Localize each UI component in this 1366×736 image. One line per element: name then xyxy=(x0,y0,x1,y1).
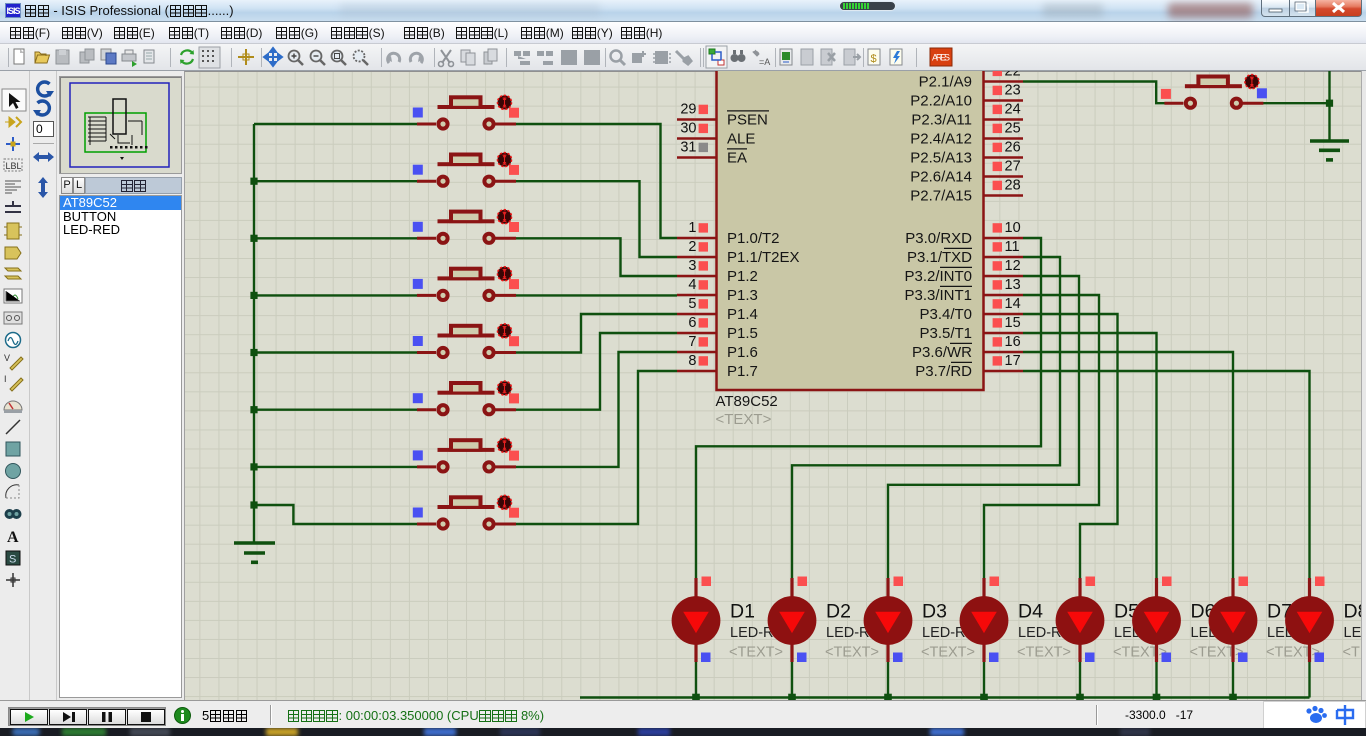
pin 13 stub xyxy=(984,277,1024,295)
wire pin17 to LED D8 xyxy=(1023,371,1310,578)
pin label P1.2 xyxy=(727,268,758,285)
toolbar xyxy=(0,44,1366,71)
svg-text:2: 2 xyxy=(688,239,696,255)
pin label P3.6/WR xyxy=(912,343,972,361)
pin label P1.5 xyxy=(727,325,758,342)
pin label P3.7/RD xyxy=(915,362,972,380)
svg-text:30: 30 xyxy=(680,121,696,137)
pin 30 stub (ALE) xyxy=(677,121,717,139)
wire pin12 to LED D3 xyxy=(888,276,1079,578)
wire button7 to pin7 xyxy=(516,352,677,467)
wire button3 to pin3 xyxy=(516,238,677,276)
junction bottom bus x=792 xyxy=(788,694,796,702)
svg-text:I: I xyxy=(4,374,7,384)
left tool strip xyxy=(0,71,30,700)
pin label P1.7 xyxy=(727,363,758,380)
svg-text:S: S xyxy=(9,554,16,566)
LED D2 xyxy=(768,577,890,663)
ground left xyxy=(234,543,275,562)
junction bottom bus x=696 xyxy=(692,694,700,702)
junction on ground bus y=295.4 xyxy=(250,292,257,299)
wire button row2 to bus xyxy=(254,180,417,182)
svg-text:ARES: ARES xyxy=(932,53,950,63)
op-amp U1 : microcontroller AT89C52 body xyxy=(717,50,984,390)
wire LED D2 cathode to bus xyxy=(791,662,793,698)
junction bottom bus x=1233 xyxy=(1229,694,1237,702)
svg-text:25: 25 xyxy=(1005,121,1021,137)
wire button8 to pin8 xyxy=(516,371,677,524)
pin 23 stub xyxy=(984,83,1024,101)
svg-text:=A: =A xyxy=(759,57,770,67)
svg-text:10: 10 xyxy=(1005,220,1021,236)
junction on ground bus y=238.3 xyxy=(250,235,257,242)
junction bottom bus x=888 xyxy=(884,694,892,702)
pin label P3.5/T1 xyxy=(919,325,972,342)
LED D4 xyxy=(960,577,1082,663)
pin 22 stub xyxy=(984,64,1024,82)
wire top net to ground xyxy=(1328,71,1330,140)
pin 4 stub (P1.3) xyxy=(677,277,717,295)
svg-text:<TEXT>: <TEXT> xyxy=(1266,645,1320,661)
status bar xyxy=(0,700,1366,728)
wire button row8 to bus xyxy=(254,505,417,524)
pin label PSEN xyxy=(727,111,769,129)
pin label P1.1/T2EX xyxy=(727,249,800,266)
pin 14 stub xyxy=(984,296,1024,314)
svg-text:D8: D8 xyxy=(1344,601,1363,623)
svg-text:P1.4: P1.4 xyxy=(727,306,758,323)
svg-text:<TEXT>: <TEXT> xyxy=(825,645,879,661)
svg-text:29: 29 xyxy=(680,102,696,118)
button S4 xyxy=(413,267,519,300)
pin 6 stub (P1.5) xyxy=(677,315,717,333)
svg-text:31: 31 xyxy=(680,140,696,156)
wire button4 to pin4 xyxy=(516,294,677,296)
svg-text:6: 6 xyxy=(688,315,696,331)
pin label P2.6/A14 xyxy=(910,169,972,186)
wire button1 to pin1 xyxy=(516,124,677,238)
svg-text:3: 3 xyxy=(688,258,696,274)
pin 1 stub (P1.0/T2) xyxy=(677,220,717,238)
panel column xyxy=(57,71,184,700)
svg-text:EA: EA xyxy=(727,150,747,167)
svg-text:17: 17 xyxy=(1005,353,1021,369)
svg-text:P3.7/RD: P3.7/RD xyxy=(915,363,972,380)
menu bar xyxy=(0,22,1366,44)
pin label P1.4 xyxy=(727,306,758,323)
junction on ground bus y=181.2 xyxy=(250,178,257,185)
svg-text:P1.0/T2: P1.0/T2 xyxy=(727,230,780,247)
svg-text:7: 7 xyxy=(688,334,696,350)
pin label P2.5/A13 xyxy=(910,150,972,167)
pin label P3.4/T0 xyxy=(919,306,972,323)
wire LED D8 cathode to bus xyxy=(1308,662,1310,698)
svg-text:26: 26 xyxy=(1005,140,1021,156)
pin label P2.7/A15 xyxy=(910,188,972,205)
svg-text:P1.3: P1.3 xyxy=(727,287,758,304)
wire pin11 to LED D2 xyxy=(792,257,1060,578)
svg-text:P2.5/A13: P2.5/A13 xyxy=(910,150,972,167)
pin label ALE xyxy=(727,131,755,148)
svg-text:P3.0/RXD: P3.0/RXD xyxy=(905,230,972,247)
taskbar xyxy=(0,728,1366,736)
svg-text:<TEXT>: <TEXT> xyxy=(1017,645,1071,661)
svg-text:D4: D4 xyxy=(1018,601,1043,623)
wire button row5 to bus xyxy=(254,351,417,353)
button S2 xyxy=(413,153,519,186)
pin label P2.1/A9 xyxy=(919,74,972,91)
svg-text:V: V xyxy=(4,353,10,363)
pin 27 stub xyxy=(984,159,1024,177)
wire LED D6 cathode to bus xyxy=(1155,662,1157,698)
svg-text:24: 24 xyxy=(1005,102,1021,118)
svg-text:P2.7/A15: P2.7/A15 xyxy=(910,188,972,205)
wire pin16 to LED D7 xyxy=(1023,352,1233,578)
pin 10 stub xyxy=(984,220,1024,238)
chip value &lt;TEXT&gt; xyxy=(716,411,772,428)
pin 12 stub xyxy=(984,258,1024,276)
svg-text:LBL: LBL xyxy=(6,161,22,171)
wire button9 to ground node xyxy=(1262,102,1330,104)
wire pin15 to LED D6 xyxy=(1023,333,1157,578)
svg-text:P1.5: P1.5 xyxy=(727,325,758,342)
pin label P2.2/A10 xyxy=(910,93,972,110)
wire LED D3 cathode to bus xyxy=(887,662,889,698)
button S6 xyxy=(413,381,519,414)
svg-text:P3.1/TXD: P3.1/TXD xyxy=(907,249,972,266)
svg-text:<TEXT>: <TEXT> xyxy=(729,645,783,661)
wire pin22 to button9 xyxy=(1023,82,1165,104)
svg-text:<TEXT>: <TEXT> xyxy=(1190,645,1244,661)
LED D6 xyxy=(1132,577,1254,663)
svg-text:PSEN: PSEN xyxy=(727,112,768,129)
wire button6 to pin6 xyxy=(516,333,677,410)
svg-text:8: 8 xyxy=(688,353,696,369)
svg-text:27: 27 xyxy=(1005,159,1021,175)
pin 11 stub xyxy=(984,239,1024,257)
junction on ground bus y=505 xyxy=(250,501,257,508)
pin label P1.3 xyxy=(727,287,758,304)
svg-text:16: 16 xyxy=(1005,334,1021,350)
pin 25 stub xyxy=(984,121,1024,139)
LED D3 xyxy=(864,577,986,663)
svg-text:LED-RED: LED-RED xyxy=(1344,625,1363,641)
svg-text:5: 5 xyxy=(688,296,696,312)
pin 2 stub (P1.1/T2EX) xyxy=(677,239,717,257)
button S1 xyxy=(413,95,519,128)
pin 15 stub xyxy=(984,315,1024,333)
pin label P3.3/INT1 xyxy=(904,286,972,304)
svg-text:P3.6/WR: P3.6/WR xyxy=(912,344,972,361)
pin 24 stub xyxy=(984,102,1024,120)
wire button row3 to bus xyxy=(254,237,417,239)
pin label P3.0/RXD xyxy=(905,230,972,247)
pin label P1.0/T2 xyxy=(727,230,780,247)
pin 28 stub xyxy=(984,178,1024,196)
svg-text:<TEXT>: <TEXT> xyxy=(1343,645,1363,661)
svg-text:$: $ xyxy=(871,53,877,65)
LED D1 xyxy=(672,577,794,663)
svg-text:P2.4/A12: P2.4/A12 xyxy=(910,131,972,148)
svg-text:P2.1/A9: P2.1/A9 xyxy=(919,74,972,91)
pin label P1.6 xyxy=(727,344,758,361)
svg-text:P2.3/A11: P2.3/A11 xyxy=(911,112,972,129)
pin label P3.2/INT0 xyxy=(904,267,972,285)
wire pin13 to LED D4 xyxy=(984,295,1099,578)
svg-text:P1.7: P1.7 xyxy=(727,363,758,380)
svg-text:ALE: ALE xyxy=(727,131,755,148)
svg-text:P3.2/INT0: P3.2/INT0 xyxy=(904,268,972,285)
junction bottom bus x=984 xyxy=(980,694,988,702)
title bar xyxy=(0,0,1366,22)
LED D7 xyxy=(1209,577,1331,663)
svg-text:4: 4 xyxy=(688,277,696,293)
wire ground bus left xyxy=(253,124,255,543)
svg-text:15: 15 xyxy=(1005,315,1021,331)
svg-text:A: A xyxy=(7,529,19,546)
svg-text:22: 22 xyxy=(1005,71,1021,80)
svg-text:P3.4/T0: P3.4/T0 xyxy=(919,306,972,323)
svg-text:P1.6: P1.6 xyxy=(727,344,758,361)
svg-text:11: 11 xyxy=(1005,239,1020,255)
svg-text:14: 14 xyxy=(1005,296,1021,312)
pin 5 stub (P1.4) xyxy=(677,296,717,314)
svg-text:P2.6/A14: P2.6/A14 xyxy=(910,169,972,186)
wire button row4 to bus xyxy=(254,294,417,296)
wire LED D4 cathode to bus xyxy=(983,662,985,698)
LED D5 xyxy=(1056,577,1178,663)
wire button row1 to bus xyxy=(254,123,417,125)
LED D8 xyxy=(1285,577,1366,663)
wire button2 to pin2 xyxy=(516,181,677,257)
chip reference AT89C52 xyxy=(716,393,778,410)
wire LED D5 cathode to bus xyxy=(1079,662,1081,698)
svg-text:P3.5/T1: P3.5/T1 xyxy=(919,325,972,342)
svg-text:<TEXT>: <TEXT> xyxy=(1113,645,1167,661)
wire LED D1 cathode to bus xyxy=(695,662,697,698)
pin 31 stub (EA) xyxy=(677,140,717,158)
pin 7 stub (P1.6) xyxy=(677,334,717,352)
svg-text:23: 23 xyxy=(1005,83,1021,99)
pin 17 stub xyxy=(984,353,1024,371)
wire pin10 to LED D1 xyxy=(696,238,1041,578)
pin 26 stub xyxy=(984,140,1024,158)
pin 16 stub xyxy=(984,334,1024,352)
svg-text:12: 12 xyxy=(1005,258,1021,274)
svg-text:P2.2/A10: P2.2/A10 xyxy=(910,93,972,110)
junction on ground bus y=466.9 xyxy=(250,463,257,470)
junction on ground bus y=409.7 xyxy=(250,406,257,413)
wire button row6 to bus xyxy=(254,409,417,411)
svg-text:1: 1 xyxy=(688,220,696,236)
svg-text:P1.2: P1.2 xyxy=(727,268,758,285)
svg-text:<TEXT>: <TEXT> xyxy=(716,411,772,428)
wire pin14 to LED D5 xyxy=(1023,314,1118,578)
pin label P2.4/A12 xyxy=(910,131,972,148)
svg-text:D2: D2 xyxy=(826,601,851,623)
pin 8 stub (P1.7) xyxy=(677,353,717,371)
junction bottom bus x=1156.5 xyxy=(1153,694,1161,702)
wire LED D7 cathode to bus xyxy=(1232,662,1234,698)
pin 29 stub (PSEN) xyxy=(677,102,717,120)
wire button row7 to bus xyxy=(254,466,417,468)
svg-text:<TEXT>: <TEXT> xyxy=(921,645,975,661)
svg-text:28: 28 xyxy=(1005,178,1021,194)
junction bottom bus x=1080 xyxy=(1076,694,1084,702)
ground top right xyxy=(1310,141,1349,160)
wire cathode bus bottom xyxy=(580,696,1310,698)
junction on ground bus y=352.5 xyxy=(250,349,257,356)
button S8 xyxy=(413,495,519,528)
button S9 top right xyxy=(1161,75,1267,108)
wire button5 to pin5 xyxy=(516,314,677,353)
svg-text:13: 13 xyxy=(1005,277,1021,293)
svg-text:D3: D3 xyxy=(922,601,947,623)
pin label EA xyxy=(727,149,747,167)
pin label P3.1/TXD xyxy=(907,248,972,266)
button S5 xyxy=(413,324,519,357)
button S3 xyxy=(413,210,519,243)
svg-text:D1: D1 xyxy=(730,601,755,623)
svg-text:P3.3/INT1: P3.3/INT1 xyxy=(904,287,972,304)
pin label P2.3/A11 xyxy=(911,112,972,129)
junction top right xyxy=(1326,100,1333,107)
svg-text:P1.1/T2EX: P1.1/T2EX xyxy=(727,249,800,266)
pin 3 stub (P1.2) xyxy=(677,258,717,276)
svg-text:AT89C52: AT89C52 xyxy=(716,393,778,410)
button S7 xyxy=(413,438,519,471)
